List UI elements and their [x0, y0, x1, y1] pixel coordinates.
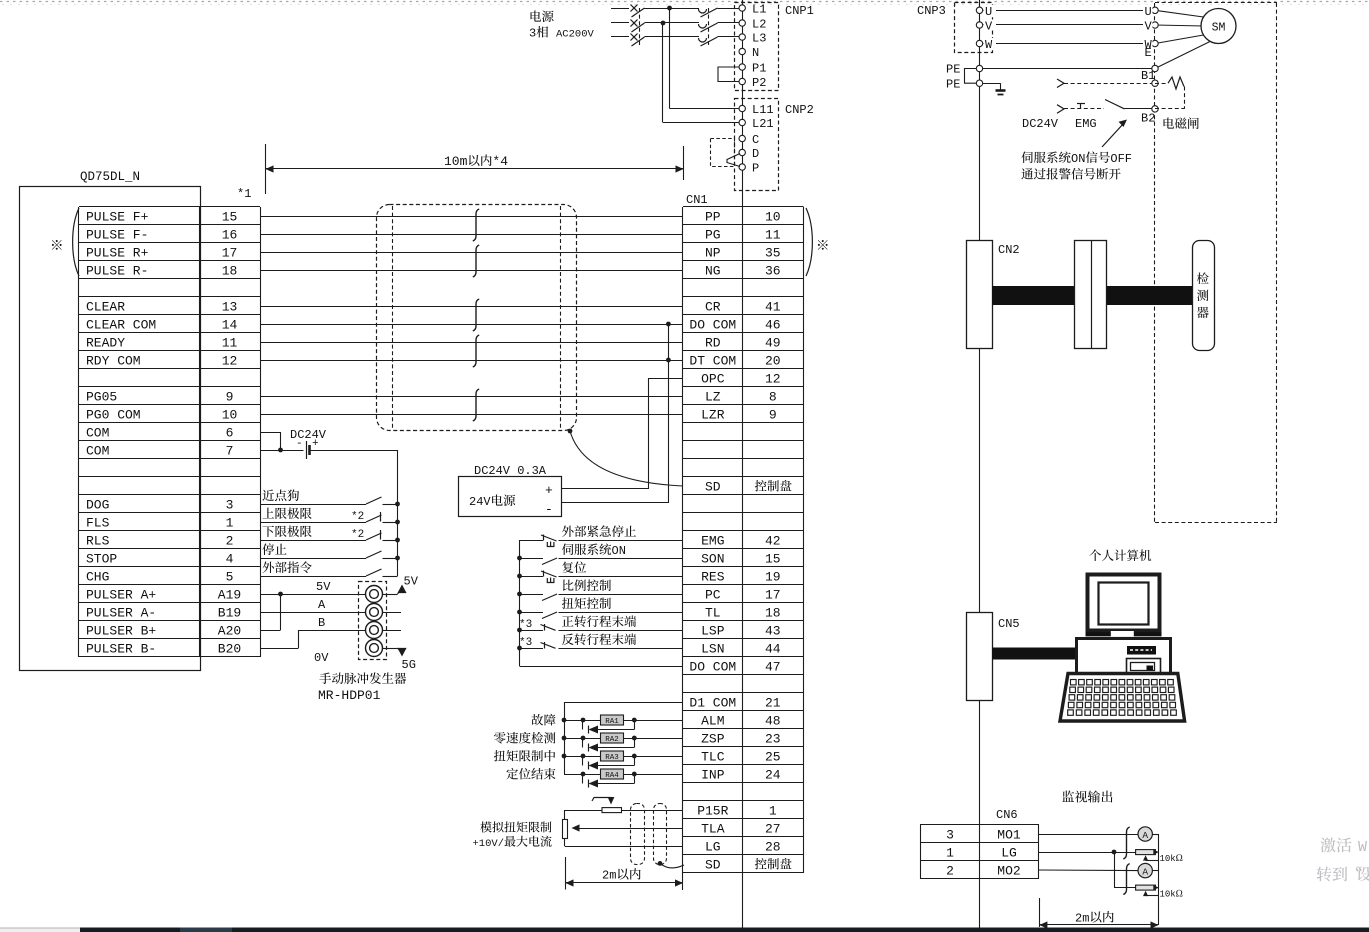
junction 24V- at DT COM	[666, 358, 671, 363]
svg-text:PE: PE	[946, 63, 960, 77]
svg-text:LG: LG	[705, 840, 721, 855]
svg-text:3: 3	[226, 498, 234, 513]
diode across RA4	[582, 774, 584, 784]
label 定位结束	[506, 768, 518, 780]
pin CNP2-D	[739, 149, 745, 155]
wire RDY COM/DT COM	[260, 360, 683, 362]
junction switch common	[395, 520, 400, 525]
contactor MC pole L3 (arc + blade)	[699, 38, 707, 42]
wire to relay RA1	[564, 720, 601, 722]
switch FLS upper limit switch (NC)	[366, 515, 382, 522]
svg-text:SD: SD	[705, 480, 721, 495]
optional regenerative resistor connection (small dashed box at C-D)	[711, 139, 735, 167]
svg-text:ZSP: ZSP	[701, 732, 725, 747]
label 手动脉冲发生器 MR-HDP01	[319, 673, 331, 685]
svg-text:B1: B1	[1141, 69, 1155, 83]
pin CNP2-L21	[739, 119, 745, 125]
shielded twisted cable (dashed shield outline)	[377, 205, 577, 431]
ground symbol (protective earth)	[996, 89, 1006, 92]
wire LG	[1039, 852, 1136, 854]
svg-text:*2: *2	[351, 511, 364, 523]
svg-text:24V: 24V	[469, 495, 491, 509]
svg-text:10k: 10k	[1160, 890, 1176, 900]
scan border dotted line top	[0, 1, 1369, 3]
wire RA2 to CN1	[624, 738, 684, 740]
wire PULSE F+/PP	[260, 216, 683, 218]
svg-text:10: 10	[765, 210, 781, 225]
svg-text:47: 47	[765, 660, 781, 675]
dashed enclosure servo motor assembly	[1155, 2, 1277, 4]
wire PULSER B- (B20) jog to B terminal	[260, 648, 299, 650]
svg-text:RA3: RA3	[605, 754, 619, 762]
ammeter 1 (A)	[1138, 827, 1152, 841]
svg-text:12: 12	[765, 372, 781, 387]
switch STOP switch	[366, 551, 382, 558]
monitor foot with stand notch	[1086, 632, 1162, 636]
svg-text:RA4: RA4	[605, 772, 619, 780]
svg-text:PULSER A+: PULSER A+	[86, 588, 156, 603]
svg-text:DC24V: DC24V	[1022, 117, 1059, 131]
svg-text:RDY COM: RDY COM	[86, 354, 141, 369]
junction RA1 left	[581, 718, 586, 723]
svg-text:B: B	[318, 616, 325, 630]
relay coil RA4 (INP in-position relay)	[601, 769, 624, 779]
junction relay common	[562, 736, 567, 741]
pin motor V	[1152, 22, 1158, 28]
circuit breaker NFB pole L2 (X mark + blade)	[631, 20, 638, 27]
switch EMG pushbutton (brake circuit)	[1080, 104, 1082, 109]
svg-text:2: 2	[226, 534, 234, 549]
svg-text:CN2: CN2	[998, 243, 1020, 257]
junction switch common	[395, 538, 400, 543]
svg-text:6: 6	[226, 426, 234, 441]
svg-text:PULSE R-: PULSE R-	[86, 264, 148, 279]
svg-text:RES: RES	[701, 570, 725, 585]
svg-text:*4: *4	[492, 154, 508, 169]
svg-text:MO2: MO2	[997, 864, 1020, 879]
wire servo amplifier right-side line (vertical bus x=979.5)	[979, 0, 981, 928]
wire COM pin6 jog	[260, 432, 281, 434]
wire PULSER A- (B19) to A terminal	[260, 612, 366, 614]
svg-text:44: 44	[765, 642, 781, 657]
svg-text:+: +	[545, 483, 553, 498]
relay coil RA1 (ALM fault output relay)	[601, 715, 624, 725]
adjustment arrow onto potentiometer	[592, 798, 611, 802]
svg-text:19: 19	[765, 570, 781, 585]
svg-text:18: 18	[222, 264, 238, 279]
svg-text:D: D	[752, 147, 759, 161]
label 伺服系统ON	[562, 543, 573, 555]
label 模拟扭矩限制 +10V/最大电流	[480, 821, 492, 832]
twisted-pair symbol pair READY	[473, 335, 479, 367]
svg-text:PP: PP	[705, 210, 721, 225]
junction RA2 left	[581, 736, 586, 741]
switch RLS lower limit switch (NC)	[366, 533, 382, 540]
wire ammeter 2 to bus	[1152, 870, 1158, 872]
breaker mechanical link (dashed)	[639, 8, 641, 46]
switch LSP forward stroke end switch (NC)	[541, 625, 556, 631]
potentiometer 10kΩ no.2	[1136, 885, 1156, 890]
pin CNP1-N	[739, 48, 745, 54]
terminal table QD75 (left)	[79, 206, 260, 208]
wire RES reset switch to CN1	[559, 576, 684, 578]
wire RA3 to CN1	[624, 756, 684, 758]
svg-text:AC200V: AC200V	[556, 29, 595, 41]
svg-text:*2: *2	[351, 529, 364, 541]
connector manual pulse generator (dashed)	[359, 582, 387, 660]
wire RA1 to CN1	[624, 720, 684, 722]
svg-text:A: A	[318, 598, 326, 612]
svg-text:NG: NG	[705, 264, 721, 279]
svg-text:25: 25	[765, 750, 781, 765]
svg-text:24: 24	[765, 768, 781, 783]
wire phase L3 input	[611, 36, 629, 38]
svg-text:MO1: MO1	[997, 828, 1021, 843]
terminal table CN1	[683, 206, 804, 208]
label 下限极限	[262, 526, 274, 537]
wire input common (vertical, EMG..DO COM)	[519, 540, 521, 666]
label 外部紧急停止	[562, 526, 574, 538]
note 伺服系统ON信号OFF 通过报警信号断开	[1021, 151, 1032, 163]
wire D1 COM feed	[564, 702, 683, 704]
svg-text:0V: 0V	[314, 651, 329, 665]
svg-text:5: 5	[226, 570, 234, 585]
wire 24V+ to OPC	[562, 488, 649, 490]
junction TLA shield drain	[658, 861, 663, 866]
wire PE to motor earth	[980, 68, 1156, 70]
dimension 2m以内 (monitor cable)	[1039, 898, 1041, 927]
contactor MC pole L1 (arc + blade)	[699, 9, 707, 13]
pin PE lower	[976, 80, 982, 86]
wire PC proportion control switch to CN1	[559, 594, 684, 596]
label 个人计算机 (personal computer)	[1089, 549, 1101, 561]
svg-text:3: 3	[946, 828, 954, 843]
twisted-pair symbol pair PULSE R	[473, 245, 479, 277]
svg-text:17: 17	[222, 246, 238, 261]
svg-text:4: 4	[226, 552, 234, 567]
svg-text:INP: INP	[701, 768, 725, 783]
electromagnetic brake coil 电磁闸 (dashed box + zigzag)	[1155, 83, 1168, 85]
svg-text:B2: B2	[1141, 112, 1155, 126]
connector CN5	[967, 613, 993, 701]
label 停止	[262, 543, 274, 555]
terminal ring A	[366, 604, 383, 621]
svg-text:L21: L21	[752, 117, 774, 131]
wire EMG emergency stop switch to CN1	[559, 540, 684, 542]
svg-text:CNP2: CNP2	[785, 103, 814, 117]
wire LSP forward stroke end switch (NC) to CN1	[559, 630, 684, 632]
svg-text:11: 11	[222, 336, 238, 351]
svg-text:QD75DL_N: QD75DL_N	[80, 170, 140, 184]
wire DO COM 47 common return	[520, 666, 684, 668]
svg-text:RD: RD	[705, 336, 721, 351]
svg-text:PG: PG	[705, 228, 721, 243]
wire CHG external command switch to common	[383, 576, 398, 578]
wire CLEAR/CR	[260, 306, 683, 308]
svg-text:LSP: LSP	[701, 624, 725, 639]
label 零速度检测	[494, 732, 506, 744]
svg-text:9: 9	[769, 408, 777, 423]
svg-text:DO COM: DO COM	[689, 318, 736, 333]
encoder 检测器	[1193, 241, 1215, 351]
bracket for PULSE group (left)	[73, 208, 79, 276]
svg-text:TLA: TLA	[701, 822, 725, 837]
svg-text:PULSER B+: PULSER B+	[86, 624, 156, 639]
junction input common	[517, 628, 522, 633]
svg-text:LG: LG	[1001, 846, 1017, 861]
svg-text:*1: *1	[237, 187, 251, 201]
svg-text:41: 41	[765, 300, 781, 315]
wire MO2 to ammeter 2	[1039, 869, 1138, 872]
wire shield drain to SD (curved)	[570, 431, 683, 486]
svg-text:W: W	[1358, 839, 1367, 856]
svg-text:MR-HDP01: MR-HDP01	[318, 688, 381, 703]
contactor mechanical link (dashed)	[708, 8, 710, 46]
note ※ differential driver group (right)	[818, 240, 828, 250]
svg-text:CN6: CN6	[996, 808, 1018, 822]
wire PULSER B+ (A20) tie	[260, 630, 281, 632]
svg-text:10m: 10m	[444, 154, 468, 169]
diode across RA2	[582, 738, 584, 748]
wire MO1 to ammeter 1	[1039, 834, 1138, 836]
wire common to LSN reverse stroke end switch (NC)	[520, 648, 544, 650]
svg-text:STOP: STOP	[86, 552, 117, 567]
junction RA3 left	[581, 754, 586, 759]
wire motor phase W	[980, 43, 1156, 45]
label 比例控制	[563, 580, 574, 591]
svg-text:W: W	[985, 38, 993, 52]
wire PG0 COM/LZR	[260, 414, 683, 416]
switch CHG external command switch	[366, 569, 382, 576]
label 复位	[562, 561, 573, 573]
svg-text:PE: PE	[946, 78, 960, 92]
wire ammeter 1 to bus	[1152, 834, 1158, 836]
svg-text:49: 49	[765, 336, 781, 351]
svg-text:P15R: P15R	[697, 804, 728, 819]
svg-text:DO COM: DO COM	[689, 660, 736, 675]
wire switch common (vertical)	[397, 450, 399, 576]
wire PULSE F-/PG	[260, 234, 683, 236]
wire to relay RA3	[564, 756, 601, 758]
junction PULSER A+ / B+	[278, 592, 283, 597]
pin CNP1-P1	[739, 64, 745, 70]
label 监视输出 (monitor output)	[1062, 791, 1074, 802]
wire to relay RA2	[564, 738, 601, 740]
switch LSN reverse stroke end switch (NC)	[541, 643, 556, 649]
twisted pair symbol MO1/LG	[1123, 827, 1129, 859]
label 正转行程末端	[562, 616, 574, 627]
svg-text:16: 16	[222, 228, 238, 243]
svg-text:SD: SD	[705, 858, 721, 873]
wire L2 tap down to L21	[662, 23, 664, 123]
svg-text:FLS: FLS	[86, 516, 110, 531]
wire CLEAR COM/DO COM	[260, 324, 683, 326]
svg-text:CNP3: CNP3	[917, 4, 946, 18]
svg-text:L3: L3	[752, 32, 766, 46]
wire to CHG external command switch	[260, 576, 366, 578]
pin CNP3-W	[976, 40, 982, 46]
junction input common	[517, 646, 522, 651]
wire PULSER A+ (A19) to 5V terminal	[260, 594, 366, 596]
svg-text:7: 7	[226, 444, 234, 459]
label 上限极限	[262, 508, 274, 519]
svg-text:5G: 5G	[402, 658, 416, 672]
junction RA3 right	[632, 754, 637, 759]
wire 24V- to DO COM / DT COM	[562, 502, 669, 504]
motor SM (servo motor)	[1201, 9, 1236, 44]
svg-text:5V: 5V	[316, 580, 331, 594]
terminal table CN6	[920, 824, 1039, 826]
jumper D-P	[727, 154, 740, 167]
svg-text:CNP1: CNP1	[785, 4, 814, 18]
wire CN1 connector centre line (vertical bus x=742)	[742, 0, 744, 928]
dimension 2m以内 (analog cable)	[565, 857, 567, 890]
wire STOP switch to common	[383, 558, 398, 560]
taskbar strip bottom	[0, 928, 80, 932]
diode across RA3	[582, 756, 584, 766]
svg-text:LZR: LZR	[701, 408, 725, 423]
label 反转行程末端	[562, 634, 574, 646]
wire L3 breaker to contactor	[645, 36, 700, 38]
connector CN2	[967, 241, 993, 349]
switch SON servo-on switch	[542, 558, 557, 565]
wire to FLS upper limit switch (NC)	[260, 522, 366, 524]
svg-text:20: 20	[765, 354, 781, 369]
encoder cable segment 2	[1107, 286, 1192, 305]
switch PC proportion control switch	[542, 594, 557, 601]
wire potentiometer to divider resistor	[565, 810, 602, 812]
svg-text:L2: L2	[752, 18, 766, 32]
svg-text:ON: ON	[612, 544, 626, 558]
svg-text:1: 1	[769, 804, 777, 819]
bracket for PP-NG group (right)	[806, 208, 812, 276]
wire L1 contactor to CNP1 pin	[718, 8, 740, 10]
potentiometer (torque limit setting)	[602, 808, 622, 813]
svg-text:A19: A19	[218, 588, 241, 603]
wire COM pin7 to battery	[260, 450, 304, 452]
wire common to LSP forward stroke end switch (NC)	[520, 630, 544, 632]
svg-text:DT COM: DT COM	[689, 354, 736, 369]
svg-text:-: -	[296, 438, 303, 450]
wire L2 contactor to CNP1 pin	[718, 22, 740, 24]
svg-text:27: 27	[765, 822, 781, 837]
svg-text:14: 14	[222, 318, 238, 333]
junction input common	[517, 592, 522, 597]
svg-text:B20: B20	[218, 642, 241, 657]
wire P15R to potentiometer	[622, 810, 684, 812]
terminal ring B	[366, 622, 383, 639]
floppy drive slot 2	[1127, 659, 1161, 675]
switch EMG emergency stop switch	[541, 535, 557, 541]
svg-text:N: N	[752, 46, 759, 60]
svg-text:CR: CR	[705, 300, 721, 315]
svg-text:1: 1	[946, 846, 954, 861]
annotation arrow to alarm contact	[1102, 123, 1124, 147]
svg-text:1: 1	[226, 516, 234, 531]
wire common to EMG emergency stop switch	[520, 540, 544, 542]
watermark 激活 Windows	[1320, 838, 1335, 853]
svg-text:17: 17	[765, 588, 781, 603]
wire L3 contactor to CNP1 pin	[718, 36, 740, 38]
svg-text:CLEAR COM: CLEAR COM	[86, 318, 156, 333]
pin PE upper	[976, 65, 982, 71]
junction switch common	[395, 556, 400, 561]
wire phase L1 input	[611, 8, 629, 10]
wire common to PC proportion control switch	[520, 594, 544, 596]
svg-text:2m: 2m	[1075, 912, 1089, 926]
wire L2 breaker to contactor	[645, 22, 700, 24]
wire motor phase V	[980, 24, 1156, 26]
twisted-pair symbol pair CLEAR	[473, 299, 479, 331]
svg-text:21: 21	[765, 696, 781, 711]
wire phase L2 input	[611, 22, 629, 24]
svg-text:B19: B19	[218, 606, 241, 621]
svg-text:2: 2	[946, 864, 954, 879]
wire common to TL torque control switch	[520, 612, 544, 614]
svg-text:P: P	[752, 162, 759, 176]
junction on L2 feed to L21	[661, 21, 666, 26]
diode across RA1	[582, 720, 584, 730]
svg-text:L11: L11	[752, 103, 774, 117]
svg-text:15: 15	[222, 210, 238, 225]
junction COM6/COM7	[278, 448, 283, 453]
svg-text:5V: 5V	[404, 575, 419, 589]
pin CNP3-V	[976, 22, 982, 28]
svg-text:35: 35	[765, 246, 781, 261]
wire LSN reverse stroke end switch (NC) to CN1	[559, 648, 684, 650]
wire resistor to LG	[564, 839, 566, 847]
shielded twisted pair for TLA (dashed)	[631, 804, 645, 865]
wire to DOG switch	[260, 504, 366, 506]
computer case	[1077, 639, 1171, 676]
wire 5V stub + arrow	[382, 594, 398, 596]
label 外部指令	[262, 562, 274, 574]
svg-text:-: -	[545, 502, 553, 517]
wire to STOP switch	[260, 558, 366, 560]
pin CNP1-L2	[739, 20, 745, 26]
potentiometer 10kΩ no.1	[1136, 850, 1156, 855]
wire PG05/LZ	[260, 396, 683, 398]
svg-text:36: 36	[765, 264, 781, 279]
svg-text:NP: NP	[705, 246, 721, 261]
wire PE to ground	[983, 83, 1001, 85]
svg-text:COM: COM	[86, 426, 109, 441]
connector CNP1 (dashed outline)	[735, 3, 779, 91]
wire PULSE R+/NP	[260, 252, 683, 254]
svg-text:PC: PC	[705, 588, 721, 603]
junction RA1 right	[632, 718, 637, 723]
svg-text:12: 12	[222, 354, 238, 369]
svg-text:CLEAR: CLEAR	[86, 300, 125, 315]
pin motor B1	[1152, 80, 1158, 86]
junction input common	[517, 610, 522, 615]
svg-text:13: 13	[222, 300, 238, 315]
svg-text:46: 46	[765, 318, 781, 333]
svg-text:3: 3	[529, 27, 536, 41]
svg-text:COM: COM	[86, 444, 109, 459]
wire meter bus (vertical)	[1158, 834, 1160, 925]
pin CNP3-U	[976, 7, 982, 13]
svg-text:P2: P2	[752, 76, 766, 90]
svg-text:8: 8	[769, 390, 777, 405]
junction relay common	[562, 718, 567, 723]
wire brake B1 (dashed, from DC24V)	[1064, 83, 1152, 85]
label 扭矩限制中	[494, 750, 506, 762]
wire battery + to switch common	[311, 450, 398, 452]
svg-text:28: 28	[765, 840, 781, 855]
svg-text:EMG: EMG	[1075, 117, 1097, 131]
wire TLA wiper	[578, 828, 683, 830]
